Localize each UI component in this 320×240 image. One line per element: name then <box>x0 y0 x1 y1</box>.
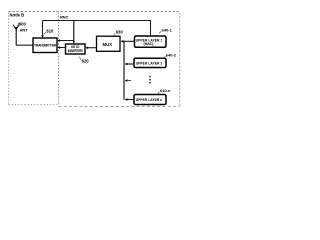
svg-text:640-2: 640-2 <box>166 53 177 58</box>
svg-text:RNC: RNC <box>60 15 69 20</box>
svg-text:600: 600 <box>19 21 27 26</box>
svg-text:Node B: Node B <box>10 12 25 17</box>
svg-text:TRANSMITTER: TRANSMITTER <box>34 44 57 48</box>
svg-text:(MAC): (MAC) <box>144 42 154 46</box>
svg-text:630: 630 <box>116 29 124 34</box>
svg-text:640-1: 640-1 <box>162 28 173 33</box>
svg-text:ANT: ANT <box>20 27 29 32</box>
svg-text:UPPER LAYER 2: UPPER LAYER 2 <box>136 62 163 66</box>
svg-text:UPPER LAYER n: UPPER LAYER n <box>136 98 163 102</box>
svg-text:610: 610 <box>46 28 54 33</box>
svg-text:620: 620 <box>82 58 90 63</box>
svg-text:MUX: MUX <box>103 42 113 47</box>
svg-text:INSERTER: INSERTER <box>68 49 84 53</box>
svg-text:640-n: 640-n <box>160 88 171 93</box>
